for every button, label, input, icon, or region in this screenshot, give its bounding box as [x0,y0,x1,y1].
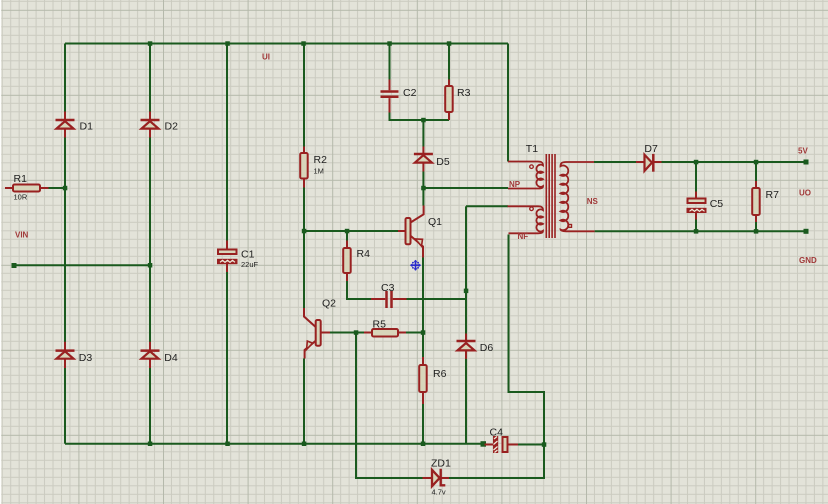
transistor Q1 [398,206,424,258]
wire R3 top stub [448,44,450,80]
resistor R4 [343,241,351,282]
wire R2 column to base node [303,188,305,309]
wire R5 right to emitter node [406,332,423,334]
svg-text:UO: UO [799,189,811,198]
resistor R5 [364,329,406,337]
node junction R7 top [754,160,759,165]
transformer core [546,154,555,238]
resistor R3 [445,80,453,121]
svg-text:D2: D2 [165,121,179,133]
node junction R5 left ZD1 branch [354,330,359,335]
wire R1 to D1 column [49,187,66,189]
svg-text:R2: R2 [314,154,328,166]
wire C5 bottom stub [695,220,697,232]
wire C3 right to D6 column [407,298,467,300]
capacitor C5 [687,192,707,220]
svg-text:R1: R1 [14,173,28,185]
diode D2 [141,112,160,138]
svg-text:R6: R6 [433,368,447,380]
primary polarity dot [530,165,534,169]
svg-text:D7: D7 [644,143,658,155]
wire D6 column lower [465,359,467,444]
svg-text:22uF: 22uF [241,260,259,269]
diode D6 [457,334,476,359]
svg-text:5V: 5V [798,147,808,156]
node junction C5 top [694,160,699,165]
node junction D5 top node [421,118,426,123]
wire D5 top stub [422,120,424,147]
node junction D6 column near C3 [464,289,469,294]
node junction top bus at C2 column [387,41,392,46]
svg-text:10R: 10R [14,193,28,202]
wire Q1 emitter down [422,258,424,334]
feedback winding NF [508,206,544,233]
svg-text:VIN: VIN [15,231,29,240]
capacitor C3 [371,291,407,308]
wire R6 bottom stub [422,404,424,444]
wire D1 column lower to bottom bus [64,368,66,444]
svg-text:C2: C2 [403,87,417,99]
node junction top bus at R2 column [301,41,306,46]
wire C2 bottom corner to R3 bottom [390,113,450,121]
node junction C4 right on NF net [542,442,547,447]
node junction R2 bottom base node [302,229,307,234]
wire R4 bottom to C3 [347,281,371,299]
node junction bottom bus at C1 column [225,442,230,447]
wire C4 right stub [518,444,544,446]
node junction R4 top on base wire [345,229,350,234]
wire C1 column lower [226,272,228,444]
wire Q1 base horizontal [304,230,398,232]
wire top bus down to T1 primary [507,44,509,162]
wire NS top to D7 [594,161,636,163]
wire D4 column lower [149,368,151,444]
svg-text:UI: UI [262,53,270,62]
resistor R2 [300,147,308,188]
svg-text:Q2: Q2 [322,298,336,310]
wire ZD1 branch down and right [356,333,423,479]
svg-text:NF: NF [518,232,529,241]
svg-text:C1: C1 [241,249,255,261]
node junction bottom bus at D4 column [148,442,153,447]
wire R2 column upper [303,44,305,147]
node VIN stub left end square [12,263,17,268]
svg-text:D4: D4 [164,352,178,364]
wire C2 top stub [389,44,391,80]
origin marker [410,260,421,271]
capacitor C4 [485,436,519,453]
secondary polarity dot [568,224,572,228]
svg-text:R5: R5 [373,319,387,331]
wire VIN stub [14,264,150,266]
node GND terminal square [804,229,809,234]
primary winding NP [508,162,543,189]
wire bottom bus [65,443,482,445]
diode D3 [56,342,75,368]
diode D4 [141,342,160,368]
svg-text:R3: R3 [457,87,471,99]
resistor R7 [752,181,760,222]
svg-text:R7: R7 [766,189,780,201]
wire NF top horizontal [466,205,508,207]
node junction collector node [421,186,426,191]
wire R4 top stub [346,231,348,241]
wire D7 to 5V terminal [662,161,807,163]
wire D2 column upper [149,44,151,112]
wire D1 column upper [64,44,66,112]
wire R7 top stub [755,162,757,181]
svg-text:C3: C3 [381,282,395,294]
wire R7 bottom stub [755,222,757,231]
wire D5 bottom stub [422,172,424,189]
node junction bottom bus at Q2 column [302,442,307,447]
svg-text:D3: D3 [79,352,93,364]
capacitor C1 [217,241,238,273]
svg-text:NS: NS [587,197,599,206]
svg-text:R4: R4 [357,248,371,260]
node junction bottom bus at R6 column [421,442,426,447]
wire R6 top stub [422,333,424,357]
svg-text:Q1: Q1 [428,216,442,228]
node junction R7 bottom [754,229,759,234]
transformer T1 [508,154,595,238]
svg-text:1M: 1M [314,167,324,176]
capacitor C2 [381,80,399,113]
secondary winding NS [561,162,595,231]
wire Q2 emitter column to bottom bus [303,359,305,444]
feedback polarity dot [530,207,534,211]
node junction top bus at D2 column [148,41,153,46]
wire D1 column middle [64,137,66,342]
resistor R6 [419,357,427,404]
wire Q1 collector stub [422,188,424,206]
wire ZD1 cathode to NF net [449,235,544,479]
zener diode ZD1 [423,469,450,487]
node junction emitter R5 R6 node [421,330,426,335]
node junction top bus at R3 column [447,41,452,46]
node 5V terminal square [804,160,809,165]
svg-text:GND: GND [799,256,817,265]
resistor R1 [5,185,49,192]
node bottom bus end square at C4 [481,441,487,447]
diode D1 [56,112,75,138]
node junction VIN stub at D2 column [148,263,153,268]
transistor Q2 [304,308,330,359]
node junction R1 at D1 column [63,186,68,191]
wire collector node to T1 NP bottom [423,187,508,189]
svg-text:D1: D1 [80,121,94,133]
diode D7 [636,154,662,172]
wire Q2 collector to R5 [330,332,364,334]
svg-text:4.7v: 4.7v [432,488,446,497]
svg-text:D6: D6 [480,342,494,354]
svg-text:NP: NP [509,180,521,189]
wire top bus horizontal [65,43,508,45]
wire C1 column upper [226,44,228,241]
wire C5 top stub [695,162,697,192]
svg-text:D5: D5 [436,156,450,168]
diode D5 [414,147,433,172]
svg-text:ZD1: ZD1 [431,458,451,470]
node junction top bus at C1 column [225,41,230,46]
node junction C5 bottom [694,229,699,234]
svg-text:C5: C5 [710,198,724,210]
svg-text:C4: C4 [490,427,504,439]
wire NS bottom GND rail [595,230,806,232]
wire D6 column upper from NF corner [465,206,467,333]
wire D2 column middle [149,137,151,342]
svg-text:T1: T1 [526,143,538,155]
